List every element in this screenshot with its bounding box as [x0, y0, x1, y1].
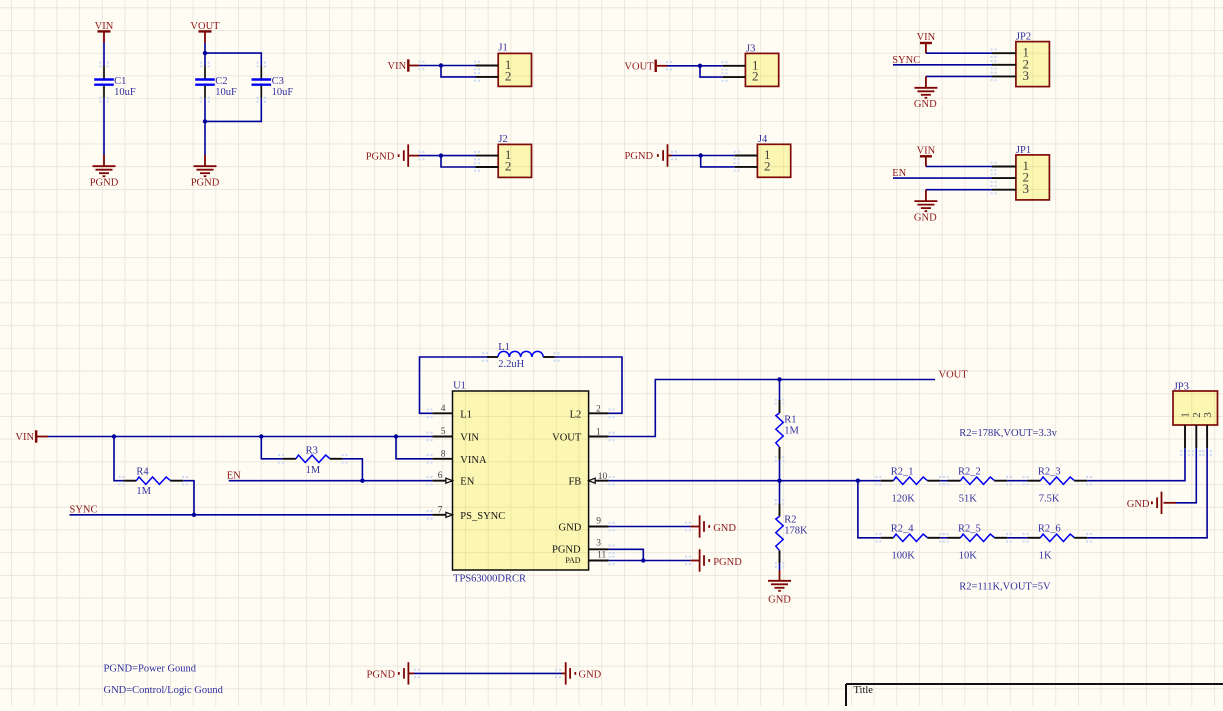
svg-text:R1: R1: [784, 414, 796, 425]
resistor R1: [779, 400, 781, 413]
pin 2 (JP2): [992, 64, 1016, 66]
wire: [779, 481, 781, 504]
wire: [940, 537, 947, 539]
wire: [667, 65, 723, 67]
marker: [427, 454, 433, 464]
IC U1 TPS63000DRCR body: [453, 391, 589, 570]
svg-text:GND: GND: [559, 523, 582, 534]
svg-text:2: 2: [596, 404, 601, 414]
svg-text:R2_3: R2_3: [1038, 467, 1061, 478]
svg-text:10: 10: [598, 472, 608, 482]
wire: [204, 98, 206, 155]
capacitor C3: [260, 66, 262, 79]
marker: [722, 72, 728, 82]
wire: [1007, 480, 1027, 482]
marker: [991, 162, 997, 172]
marker: [200, 97, 210, 103]
marker: [1202, 450, 1212, 456]
marker: [257, 97, 267, 103]
svg-text:J1: J1: [498, 43, 507, 54]
svg-text:9: 9: [596, 517, 601, 527]
junction: [439, 153, 443, 157]
junction: [360, 479, 364, 483]
svg-text:10uF: 10uF: [114, 87, 136, 98]
wire: [701, 156, 735, 167]
svg-text:C1: C1: [114, 76, 126, 87]
svg-text:FB: FB: [568, 477, 581, 488]
marker: [775, 499, 785, 505]
title block: [846, 684, 1223, 706]
pin 2 L2 (U1): [589, 412, 609, 414]
ground GND (JP2): [925, 76, 927, 87]
svg-text:GND: GND: [914, 99, 937, 110]
svg-text:100K: 100K: [892, 551, 916, 562]
marker: [1006, 533, 1012, 543]
marker: [609, 432, 615, 442]
marker: [939, 476, 945, 486]
svg-text:6: 6: [438, 471, 443, 481]
marker: [685, 522, 691, 532]
pin 1 (J3): [723, 65, 746, 67]
marker: [609, 409, 615, 419]
marker: [734, 151, 740, 161]
wire: [926, 166, 992, 168]
pin 1 (J1): [476, 65, 499, 67]
connector JP1: [1016, 155, 1050, 200]
pin 7 PS_SYNC (U1): [432, 514, 452, 516]
svg-text:10uF: 10uF: [272, 87, 294, 98]
svg-text:2: 2: [505, 68, 512, 83]
wire: [672, 155, 735, 157]
svg-text:51K: 51K: [959, 494, 978, 505]
svg-text:R3: R3: [306, 446, 318, 457]
svg-text:PGND: PGND: [191, 178, 220, 189]
svg-text:R2_5: R2_5: [958, 524, 981, 535]
marker: [991, 60, 997, 70]
connector J3: [745, 53, 778, 86]
connector JP3: [1173, 391, 1218, 425]
pin 8 VINA (U1): [432, 458, 452, 460]
svg-text:VIN: VIN: [460, 433, 479, 444]
pin 3 PGND (U1): [589, 548, 609, 550]
marker: [991, 72, 997, 82]
wire: [1087, 448, 1207, 538]
marker: [876, 476, 882, 486]
marker: [609, 476, 615, 486]
wire: [48, 436, 432, 438]
wire: [926, 189, 992, 191]
pin 10 FB (U1): [589, 480, 609, 482]
wire: [926, 75, 992, 77]
marker: [876, 533, 882, 543]
pin 1 (J4): [735, 155, 758, 157]
svg-text:11: 11: [597, 550, 606, 560]
svg-text:1M: 1M: [306, 465, 321, 476]
junction: [777, 479, 781, 483]
svg-text:J2: J2: [498, 134, 507, 145]
wire: [420, 357, 488, 413]
svg-text:VINA: VINA: [460, 455, 487, 466]
marker: [943, 476, 949, 486]
connector JP2: [1016, 42, 1050, 87]
resistor R2_1: [880, 480, 893, 482]
svg-text:10uF: 10uF: [215, 87, 237, 98]
pin 6 EN (U1): [432, 480, 452, 482]
marker: [609, 522, 615, 532]
wire: [114, 437, 123, 481]
marker: [99, 97, 109, 103]
marker: [474, 151, 480, 161]
svg-text:GND: GND: [914, 213, 937, 224]
pin 3 (JP3): [1206, 425, 1208, 448]
wire: [893, 64, 992, 66]
svg-text:PGND: PGND: [90, 178, 119, 189]
marker: [482, 352, 488, 362]
marker: [200, 62, 210, 68]
marker: [474, 72, 480, 82]
svg-text:1K: 1K: [1039, 551, 1052, 562]
svg-text:J4: J4: [758, 134, 768, 145]
svg-text:L2: L2: [570, 409, 582, 420]
svg-text:GND=Control/Logic Gound: GND=Control/Logic Gound: [104, 685, 224, 696]
svg-text:C3: C3: [272, 76, 284, 87]
svg-text:VOUT: VOUT: [552, 433, 582, 444]
marker: [1180, 450, 1190, 456]
pin 1 (JP2): [992, 52, 1016, 54]
power ground PGND (C2): [204, 155, 206, 166]
marker: [474, 162, 480, 172]
pin 1 VOUT (U1): [589, 436, 609, 438]
svg-text:L1: L1: [498, 342, 510, 353]
marker: [278, 454, 284, 464]
wire: [419, 155, 476, 157]
wire: [103, 43, 105, 67]
marker: [257, 62, 267, 68]
svg-text:3: 3: [1202, 412, 1214, 418]
wire: [609, 380, 935, 437]
wire: [940, 480, 947, 482]
svg-text:3: 3: [1023, 68, 1030, 83]
wire: [441, 66, 476, 77]
svg-text:VIN: VIN: [917, 145, 936, 156]
svg-text:2.2uH: 2.2uH: [498, 359, 524, 370]
pin 2 (J3): [723, 76, 746, 78]
pin 2 (J1): [476, 76, 499, 78]
junction: [112, 434, 116, 438]
svg-text:VIN: VIN: [388, 61, 407, 72]
svg-text:R2=111K,VOUT=5V: R2=111K,VOUT=5V: [959, 582, 1051, 593]
wire: [1087, 448, 1185, 481]
capacitor C2: [204, 66, 206, 79]
wire: [926, 52, 992, 54]
junction: [439, 63, 443, 67]
svg-text:2: 2: [505, 159, 512, 174]
svg-text:U1: U1: [453, 381, 466, 392]
resistor R3: [283, 458, 296, 460]
marker: [671, 151, 677, 161]
svg-text:GND: GND: [579, 669, 602, 680]
wire: [261, 437, 283, 459]
wire: [779, 563, 781, 570]
wire: [103, 98, 105, 155]
marker: [1023, 533, 1029, 543]
svg-text:120K: 120K: [892, 494, 916, 505]
svg-text:2: 2: [764, 158, 771, 173]
junction: [641, 558, 645, 562]
svg-text:VOUT: VOUT: [624, 62, 654, 73]
pin 9 GND (U1): [589, 526, 609, 528]
ground GND (R2): [779, 570, 781, 581]
power ground PGND (C1): [103, 155, 105, 166]
wire: [419, 65, 476, 67]
ground GND (JP1): [925, 190, 927, 201]
marker: [427, 510, 433, 520]
pin 5 VIN (U1): [432, 436, 452, 438]
svg-text:PGND: PGND: [713, 557, 742, 568]
svg-text:10K: 10K: [959, 551, 978, 562]
wire: [343, 459, 363, 481]
wire: [183, 481, 194, 515]
svg-text:EN: EN: [460, 477, 474, 488]
marker: [419, 151, 425, 161]
junction: [192, 513, 196, 517]
svg-text:TPS63000DRCR: TPS63000DRCR: [453, 574, 526, 585]
marker: [1086, 533, 1092, 543]
marker: [991, 185, 997, 195]
wire: [204, 43, 206, 66]
svg-text:GND: GND: [713, 523, 736, 534]
marker: [427, 409, 433, 419]
capacitor C1: [103, 66, 105, 79]
svg-text:8: 8: [441, 450, 446, 460]
marker: [1023, 476, 1029, 486]
marker: [119, 476, 125, 486]
svg-text:1M: 1M: [784, 425, 799, 436]
wire: [609, 560, 691, 562]
marker: [991, 173, 997, 183]
wire: [396, 437, 432, 459]
marker: [1006, 476, 1012, 486]
resistor R2_3: [1027, 480, 1040, 482]
marker: [1192, 450, 1202, 456]
svg-text:GND: GND: [768, 594, 791, 605]
resistor R2_5: [948, 537, 961, 539]
svg-text:2: 2: [752, 69, 759, 84]
marker: [609, 545, 615, 555]
svg-text:PS_SYNC: PS_SYNC: [460, 511, 505, 522]
svg-text:5: 5: [441, 427, 446, 437]
marker: [775, 562, 785, 568]
junction: [394, 434, 398, 438]
svg-text:VIN: VIN: [15, 432, 34, 443]
pin 1 (JP1): [992, 166, 1016, 168]
svg-text:L1: L1: [460, 409, 472, 420]
svg-text:R2_2: R2_2: [958, 467, 981, 478]
wire: [609, 480, 881, 482]
wire: [205, 98, 261, 121]
svg-text:R2_1: R2_1: [891, 467, 914, 478]
junction: [777, 377, 781, 381]
marker: [1086, 476, 1092, 486]
svg-text:PGND: PGND: [552, 545, 581, 556]
svg-text:C2: C2: [215, 76, 227, 87]
marker: [734, 162, 740, 172]
svg-text:1: 1: [1180, 412, 1192, 418]
power ground port GND (tie): [562, 672, 566, 674]
marker: [427, 432, 433, 442]
inductor L1: [487, 356, 498, 358]
marker: [943, 533, 949, 543]
pin 3 (JP1): [992, 189, 1016, 191]
connector J1: [498, 53, 531, 86]
marker: [666, 61, 672, 71]
wire: [70, 514, 433, 516]
resistor R2_2: [948, 480, 961, 482]
resistor R2_4: [880, 537, 893, 539]
marker: [182, 476, 188, 486]
wire: [1176, 448, 1196, 503]
marker: [685, 556, 691, 566]
pin 2 (JP3): [1195, 425, 1197, 448]
marker: [991, 48, 997, 58]
svg-text:R2_4: R2_4: [891, 524, 915, 535]
svg-text:PGND: PGND: [367, 669, 396, 680]
marker: [427, 476, 433, 486]
wire: [555, 357, 623, 413]
marker: [555, 669, 561, 679]
marker: [474, 61, 480, 71]
pin 2 (J4): [735, 166, 758, 168]
pin 4 L1 (U1): [432, 412, 452, 414]
svg-text:4: 4: [441, 404, 446, 414]
svg-text:3: 3: [1023, 181, 1030, 196]
pin 1 (JP3): [1184, 425, 1186, 448]
pin 11 PAD (U1): [589, 560, 609, 562]
marker: [414, 669, 420, 679]
svg-text:1: 1: [596, 428, 601, 438]
wire: [205, 53, 261, 66]
connector J4: [757, 144, 790, 177]
svg-text:1M: 1M: [136, 486, 151, 497]
power ground port PGND (pin 11): [690, 560, 699, 562]
marker: [775, 456, 785, 462]
resistor R2_6: [1027, 537, 1040, 539]
resistor R2: [779, 503, 781, 516]
pin 2 (J2): [476, 166, 499, 168]
junction: [259, 434, 263, 438]
svg-text:VOUT: VOUT: [939, 370, 969, 381]
marker: [99, 62, 109, 68]
marker: [342, 454, 348, 464]
marker: [775, 399, 785, 405]
junction: [856, 479, 860, 483]
marker: [554, 352, 560, 362]
svg-text:R2=178K,VOUT=3.3v: R2=178K,VOUT=3.3v: [959, 428, 1057, 439]
junction: [698, 64, 702, 68]
power ground port GND (pin 9): [690, 526, 699, 528]
svg-text:PGND=Power Gound: PGND=Power Gound: [104, 664, 197, 675]
svg-text:7.5K: 7.5K: [1039, 494, 1060, 505]
power ground port GND (JP3): [1164, 502, 1177, 504]
svg-text:Title: Title: [854, 685, 874, 696]
marker: [419, 61, 425, 71]
wire: [779, 380, 781, 401]
pin 2 (JP1): [992, 177, 1016, 179]
wire: [441, 156, 476, 167]
wire: [779, 460, 781, 481]
wire: [609, 526, 691, 528]
connector J2: [498, 144, 531, 177]
marker: [939, 533, 945, 543]
wire: [1007, 537, 1027, 539]
svg-text:R2_6: R2_6: [1038, 524, 1061, 535]
svg-text:VIN: VIN: [917, 32, 936, 43]
pin 1 (J2): [476, 155, 499, 157]
junction: [203, 119, 207, 123]
pin 3 (JP2): [992, 75, 1016, 77]
wire: [893, 177, 992, 179]
svg-text:178K: 178K: [784, 526, 808, 537]
junction: [699, 153, 703, 157]
wire: [229, 480, 433, 482]
svg-text:PAD: PAD: [565, 556, 580, 565]
wire: [700, 66, 723, 77]
svg-text:R4: R4: [136, 467, 149, 478]
svg-text:7: 7: [438, 505, 443, 515]
svg-text:GND: GND: [1127, 499, 1150, 510]
svg-text:R2: R2: [784, 515, 796, 526]
marker: [722, 61, 728, 71]
wire: [858, 481, 880, 538]
marker: [609, 556, 615, 566]
svg-text:3: 3: [596, 539, 601, 549]
svg-text:PGND: PGND: [366, 151, 395, 162]
wire: [414, 672, 562, 674]
junction: [203, 51, 207, 55]
wire: [609, 549, 644, 560]
svg-text:PGND: PGND: [625, 151, 654, 162]
resistor R4: [123, 480, 136, 482]
